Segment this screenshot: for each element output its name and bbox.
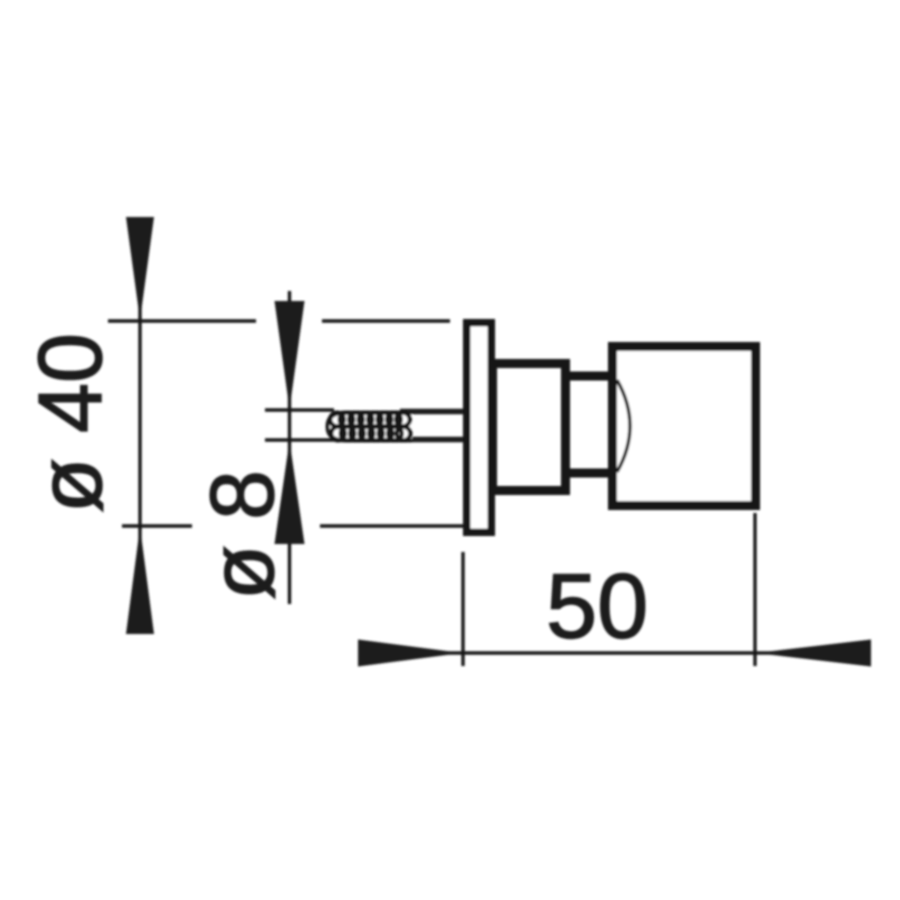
- svg-text:ø 8: ø 8: [193, 470, 293, 600]
- svg-text:50: 50: [546, 556, 648, 658]
- svg-text:ø 40: ø 40: [21, 333, 121, 513]
